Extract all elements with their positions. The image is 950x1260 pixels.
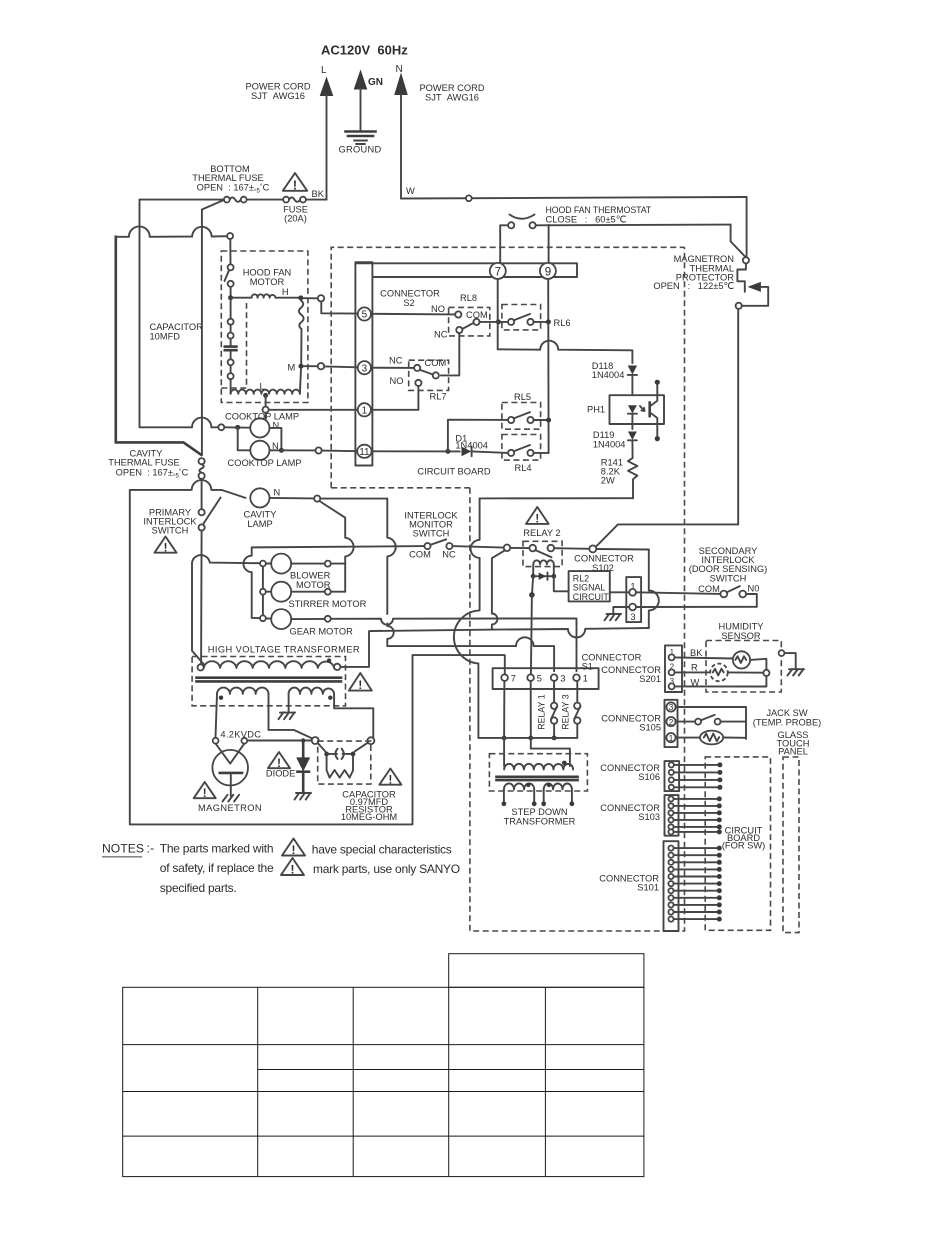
connector S2 bar	[355, 262, 372, 465]
winding H	[231, 297, 252, 299]
node 9 circled	[540, 263, 556, 279]
wire bus branch to transformer	[531, 738, 570, 766]
switch interlock monitor	[424, 543, 430, 549]
circuit board dashed box 2	[470, 247, 685, 931]
wire RL2 to S102 pin1	[610, 591, 629, 593]
magnetron thermal protector switch	[746, 197, 748, 257]
node 7 circled	[490, 263, 506, 279]
svg-text:COM: COM	[425, 358, 447, 368]
svg-text:OPEN : 167±₀5°C: OPEN : 167±₀5°C	[197, 182, 270, 194]
wire pin11 right	[372, 450, 460, 452]
svg-text:COOKTOP LAMP: COOKTOP LAMP	[228, 458, 302, 468]
thermistor TH2 dashed	[710, 664, 728, 682]
svg-text:L: L	[260, 382, 265, 392]
diode HV	[301, 738, 305, 742]
S105 pin3	[666, 702, 675, 711]
wire lamp2 left feed	[238, 427, 251, 450]
capacitor plates	[225, 345, 237, 348]
wire lamp2 to pin11	[270, 449, 316, 451]
transformer T2 secondary A	[504, 783, 534, 789]
svg-text:MOTOR: MOTOR	[250, 277, 285, 287]
svg-text:TRANSFORMER: TRANSFORMER	[504, 816, 576, 826]
fuse F1 20A symbol	[283, 197, 289, 203]
junction dot D1	[445, 449, 450, 454]
wire RL8 NC down to RL7 com	[441, 333, 460, 375]
svg-text:N: N	[274, 488, 281, 498]
svg-text:GEAR MOTOR: GEAR MOTOR	[290, 627, 354, 637]
svg-text:STIRRER MOTOR: STIRRER MOTOR	[289, 599, 367, 609]
svg-text:NC: NC	[434, 330, 448, 340]
svg-text:GROUND: GROUND	[338, 145, 381, 155]
svg-text:DIODE: DIODE	[266, 768, 295, 778]
blade capacitor left	[318, 743, 326, 751]
thermistor TH1	[733, 651, 750, 668]
wire S102 pin1 to COM	[636, 592, 721, 594]
svg-text:SENSOR: SENSOR	[721, 631, 761, 641]
switch secondary interlock	[720, 591, 727, 598]
wire lamp node horizontal to V387	[320, 498, 387, 500]
wire coil left down	[532, 576, 533, 595]
wire thermostat right lead	[536, 224, 731, 227]
power terminal GN arrow	[354, 70, 368, 90]
switch hood fan	[229, 239, 231, 265]
wire V492 diagonal from rail	[492, 550, 505, 629]
svg-text:The parts marked with: The parts marked with	[160, 842, 273, 856]
junction dot cap left	[324, 752, 329, 757]
node hood fan M terminal	[304, 365, 318, 367]
svg-text:S103: S103	[638, 812, 660, 822]
wire HV left leg to ground	[288, 694, 290, 712]
connector S106 box	[665, 761, 680, 791]
svg-text:2W: 2W	[601, 476, 615, 486]
blade capacitor right	[355, 743, 368, 752]
svg-text:!: !	[358, 680, 362, 692]
jack thermistor	[676, 737, 700, 739]
wire node B to ground	[784, 653, 795, 669]
svg-text:PANEL: PANEL	[778, 747, 808, 757]
svg-text:RELAY 1: RELAY 1	[537, 694, 547, 729]
pin 11	[357, 445, 371, 458]
wire Hb horizontal	[340, 628, 648, 667]
svg-text:JACK SW: JACK SW	[766, 708, 808, 718]
wire S102 pin3 ground	[613, 607, 629, 614]
warning triangle (notes 2)	[281, 858, 304, 877]
wire pin5 down to bus	[530, 681, 532, 738]
svg-text:!: !	[535, 514, 539, 526]
wire N down	[400, 94, 402, 199]
wire pin3 to RL7	[371, 367, 414, 369]
svg-text:S106: S106	[638, 772, 660, 782]
node A circle	[763, 670, 769, 676]
wire pin7 feed	[413, 655, 505, 674]
svg-text:9: 9	[545, 266, 551, 278]
svg-text:NC: NC	[389, 356, 403, 366]
wire TH1 right	[750, 659, 766, 670]
wire L down	[326, 95, 328, 200]
node L tap circle	[265, 395, 267, 406]
svg-text:POWER CORD: POWER CORD	[245, 82, 310, 92]
S105 pin2	[666, 717, 675, 726]
wire rail NC to relay2	[453, 546, 504, 548]
wire GN down	[360, 88, 362, 131]
svg-text:SJT AWG16: SJT AWG16	[425, 93, 479, 103]
motor gear	[260, 615, 266, 621]
junction dot H-right	[298, 295, 303, 300]
svg-text:2: 2	[669, 717, 674, 727]
motor blower	[260, 561, 266, 567]
switch primary interlock	[199, 509, 205, 515]
junction dot RL6-9	[546, 319, 551, 324]
svg-text:HOOD FAN THERMOSTAT: HOOD FAN THERMOSTAT	[546, 205, 652, 215]
junction dot M	[299, 364, 304, 369]
circuit board for SW dashed box	[705, 757, 770, 930]
relay 2 dashed box	[523, 541, 562, 566]
winding L	[231, 390, 300, 394]
svg-text:(FOR SW): (FOR SW)	[722, 841, 765, 851]
svg-text:N: N	[273, 421, 280, 431]
transformer T1 filament winding	[217, 688, 268, 694]
svg-text:HIGH VOLTAGE TRANSFORMER: HIGH VOLTAGE TRANSFORMER	[208, 644, 360, 654]
relay RL8 box	[449, 307, 490, 336]
ground symbol	[346, 130, 376, 133]
svg-text:RL6: RL6	[554, 318, 571, 328]
svg-text:5: 5	[537, 674, 542, 684]
wire interlock monitor rail	[243, 547, 259, 618]
warning triangle (notes 1)	[282, 839, 305, 858]
connector S105 box	[665, 700, 678, 747]
wire tee down to node 9	[548, 225, 550, 263]
svg-text:M: M	[288, 363, 296, 373]
S106 pins	[669, 762, 674, 790]
svg-text:OPEN : 122±5℃: OPEN : 122±5℃	[653, 281, 734, 291]
wire 7 to D118 branch	[498, 341, 633, 363]
wire hop over vertical (cooktop feed)	[192, 418, 211, 428]
motor stirrer	[260, 589, 266, 595]
svg-text:HOOD FAN: HOOD FAN	[243, 268, 292, 278]
switch relay 3	[576, 681, 578, 703]
glass touch panel dashed box	[783, 757, 799, 933]
ground (magnetron)	[223, 795, 240, 802]
svg-text:CAVITY: CAVITY	[244, 510, 277, 520]
lamp cavity	[250, 488, 269, 507]
svg-text:MOTOR: MOTOR	[296, 580, 331, 590]
wire H to pin5	[321, 302, 358, 314]
wire 11 branch up to RL5	[448, 420, 508, 452]
wire capacitor left plate	[116, 237, 202, 455]
svg-text:PH1: PH1	[587, 405, 605, 415]
lamp cooktop 1	[250, 418, 269, 437]
lamp cooktop 2	[250, 441, 269, 460]
svg-text:COM: COM	[698, 584, 720, 594]
svg-text:CIRCUIT BOARD: CIRCUIT BOARD	[417, 467, 490, 477]
thermal fuse cavity	[199, 458, 205, 464]
motor bus	[262, 566, 264, 615]
svg-text:(TEMP. PROBE): (TEMP. PROBE)	[753, 717, 822, 727]
wire lamp1 right loop	[270, 428, 282, 450]
svg-text:STEP DOWN: STEP DOWN	[511, 807, 567, 817]
connector S101 box	[664, 841, 679, 931]
svg-text:11: 11	[359, 447, 370, 458]
svg-text::-: :-	[147, 842, 155, 856]
svg-text:SWITCH: SWITCH	[152, 526, 189, 536]
pin 5	[358, 307, 371, 320]
svg-text:7: 7	[495, 266, 501, 278]
wire HV right leg	[334, 694, 373, 737]
warning triangle (fuse)	[283, 173, 307, 192]
svg-text:POWER CORD: POWER CORD	[419, 83, 484, 93]
svg-text:5: 5	[362, 310, 368, 321]
svg-text:!: !	[388, 774, 392, 786]
warning triangle (diode)	[268, 752, 290, 770]
wire pin7 line to transformer	[503, 738, 505, 766]
relay RL6 contacts	[508, 319, 514, 325]
S1 pin7	[501, 674, 508, 681]
capacitor HV plates	[335, 749, 343, 759]
wire blower feed loop	[192, 555, 260, 664]
svg-text:of safety, if replace the: of safety, if replace the	[160, 861, 274, 875]
svg-text:!: !	[291, 863, 295, 877]
warning triangle (capacitor)	[379, 769, 401, 787]
svg-text:CAPACITOR: CAPACITOR	[150, 322, 204, 332]
node cooktop feed circle	[218, 424, 224, 430]
junction dot bus-7	[502, 736, 507, 741]
enclosure wire box	[130, 490, 413, 825]
relay RL7 contacts	[414, 365, 420, 371]
svg-text:COM: COM	[409, 550, 431, 560]
relay RL4 contacts	[508, 450, 514, 456]
wire RL8 com to node7	[480, 321, 498, 323]
svg-text:BK: BK	[312, 189, 325, 199]
wire N horizontal	[401, 197, 747, 199]
svg-text:S201: S201	[639, 674, 661, 684]
wire pin7 down to bus	[503, 681, 505, 738]
svg-text:COOKTOP LAMP: COOKTOP LAMP	[225, 412, 299, 422]
svg-text:!: !	[292, 843, 296, 857]
svg-text:CONNECTOR: CONNECTOR	[380, 289, 440, 299]
svg-text:RL8: RL8	[460, 293, 477, 303]
wire node9 down	[547, 279, 549, 453]
warning triangle (magnetron)	[194, 782, 216, 800]
junction dot cap right	[351, 752, 356, 757]
node hood fan H terminal	[303, 297, 317, 299]
svg-text:NOTES: NOTES	[102, 842, 144, 856]
svg-text:OPEN : 167±₀5°C: OPEN : 167±₀5°C	[116, 467, 189, 479]
svg-text:THERMAL FUSE: THERMAL FUSE	[108, 458, 179, 468]
svg-text:N: N	[396, 64, 403, 75]
wire common bus	[478, 737, 577, 739]
svg-text:specified parts.: specified parts.	[160, 881, 237, 895]
switch relay 1	[553, 681, 555, 703]
wire TH2 right to node A	[728, 671, 764, 673]
wire enclosure top with hop	[130, 480, 246, 498]
S1 pin1	[573, 674, 580, 681]
S1 pin3	[551, 674, 558, 681]
svg-text:S105: S105	[639, 723, 661, 733]
optocoupler PH1 box	[610, 395, 665, 424]
circuit board dashed box 1	[331, 247, 684, 487]
relay RL8 contacts	[455, 311, 461, 317]
relay RL5 box	[502, 403, 541, 430]
svg-text:LAMP: LAMP	[247, 519, 272, 529]
wire gear motor long with hop	[331, 618, 577, 671]
node B circle on box edge	[779, 650, 785, 656]
jack switch wires	[676, 707, 746, 739]
wire L tap to pin1	[269, 409, 359, 411]
PH1 transistor	[648, 403, 651, 417]
svg-text:N: N	[272, 441, 279, 451]
relay2 contacts on rail	[504, 545, 511, 552]
capacitor chain center	[228, 319, 234, 325]
svg-text:R: R	[691, 662, 698, 672]
wire V345 down with rail hop	[345, 518, 353, 592]
svg-text:1: 1	[362, 406, 368, 417]
svg-text:NC: NC	[442, 550, 456, 560]
bottom thermal fuse symbol	[224, 197, 230, 203]
junction dot RL5-9	[546, 418, 551, 423]
transformer T1 core	[197, 676, 342, 679]
svg-text:1: 1	[669, 733, 674, 743]
ground (RL2)	[605, 614, 622, 621]
svg-text:SJT AWG16: SJT AWG16	[251, 91, 305, 101]
wire BK top rail	[140, 199, 225, 201]
S1 pin5	[527, 674, 534, 681]
wire S102 pin3 right	[636, 606, 757, 608]
S105 pin1	[666, 733, 675, 742]
S101 pins and wires	[668, 846, 673, 922]
svg-text:1: 1	[583, 674, 588, 684]
svg-text:AC120V 60Hz: AC120V 60Hz	[321, 43, 408, 58]
step down transformer dashed box	[489, 754, 587, 791]
wire S201 pin1 to thermistor	[675, 657, 734, 658]
wire tap diagonal to cavity branch	[202, 200, 224, 455]
resistor 10MEG	[327, 756, 353, 777]
wire filament line	[248, 740, 312, 742]
wire coil left to S1 pin5	[531, 595, 532, 675]
svg-text:CLOSE : 60±5℃: CLOSE : 60±5℃	[546, 215, 627, 225]
svg-text:SWITCH: SWITCH	[710, 573, 747, 583]
svg-text:L: L	[321, 65, 327, 76]
wire node A down to W return	[675, 676, 767, 687]
connector S1 box	[493, 668, 599, 689]
bus bar with nodes 7 and 9	[356, 263, 577, 277]
svg-text:MAGNETRON: MAGNETRON	[198, 803, 262, 813]
junction dot H-left	[228, 295, 233, 300]
svg-text:CIRCUIT: CIRCUIT	[573, 592, 610, 602]
warning triangle (primary interlock)	[155, 537, 177, 555]
transformer T1 primary	[198, 664, 204, 670]
hood fan motor dashed box	[221, 251, 308, 403]
ground (diode)	[295, 793, 312, 800]
svg-text:RELAY 3: RELAY 3	[561, 694, 571, 729]
transformer T2 secondary B	[544, 784, 572, 790]
transformer T2 core	[497, 775, 578, 778]
wire NO return	[746, 594, 757, 607]
svg-text:RL5: RL5	[514, 392, 531, 402]
power terminal L arrow	[320, 77, 334, 97]
svg-text:(20A): (20A)	[284, 214, 307, 224]
S103 pins	[668, 796, 673, 834]
wire lamp node diagonal to V345	[319, 501, 345, 518]
junction dot bus-5	[528, 736, 533, 741]
svg-text:7: 7	[511, 674, 516, 684]
junction dot cooktop	[235, 425, 240, 430]
connector S201 box	[665, 645, 682, 692]
svg-text:GN: GN	[368, 77, 383, 88]
magnetron terminals	[213, 738, 219, 744]
svg-text:1N4004: 1N4004	[593, 439, 626, 449]
svg-text:RL4: RL4	[515, 463, 532, 473]
wire coil right to RL2	[554, 576, 569, 591]
node capacitor left	[312, 737, 319, 744]
wire V387 down with rail hop	[387, 499, 395, 614]
svg-text:1N4004: 1N4004	[455, 440, 488, 450]
svg-text:10MFD: 10MFD	[150, 332, 181, 342]
svg-text:BLOWER: BLOWER	[290, 571, 331, 581]
junction dot lamp2 right	[279, 448, 284, 453]
wire M to pin3	[324, 365, 358, 368]
svg-text:W: W	[406, 186, 415, 196]
wire hood-fan feed with hops	[116, 226, 227, 236]
relay RL6 box	[502, 305, 541, 330]
wire RL7 NO to pin1	[371, 386, 418, 410]
capacitor/resistor dashed box	[318, 741, 371, 784]
svg-text:RELAY 2: RELAY 2	[523, 528, 560, 538]
relay2 clamp diode	[531, 574, 536, 579]
relay2 coil	[533, 560, 554, 564]
diode D1	[462, 447, 472, 457]
hood fan thermostat switch	[510, 215, 535, 219]
transformer T1 HV winding	[289, 688, 334, 694]
wire S201 pin2 to TH2	[675, 671, 710, 673]
svg-text:BK: BK	[690, 648, 703, 658]
node W junction circle	[466, 195, 472, 201]
wire fuse-left corner down	[140, 200, 193, 428]
svg-text:!: !	[164, 542, 168, 554]
svg-text:S1: S1	[582, 661, 593, 671]
svg-text:3: 3	[669, 702, 674, 712]
svg-text:NO: NO	[390, 376, 404, 386]
humidity sensor dashed box	[706, 641, 781, 693]
connector S102 box	[626, 577, 641, 622]
svg-text:3: 3	[560, 674, 565, 684]
svg-text:!: !	[293, 178, 297, 192]
wire node7 down	[497, 279, 499, 349]
wire R141 return	[480, 497, 633, 499]
PH1 led	[628, 405, 637, 413]
warning triangle (HV transformer)	[349, 673, 372, 692]
svg-text:3: 3	[630, 612, 635, 622]
svg-text:mark parts, use only SANYO: mark parts, use only SANYO	[313, 862, 460, 876]
junction dot RL8com-7	[496, 319, 501, 324]
HV transformer dashed box	[192, 657, 345, 706]
magnetron	[212, 750, 248, 786]
svg-text:H: H	[282, 287, 289, 297]
node capacitor right	[367, 737, 374, 744]
relay RL4 box	[502, 435, 541, 461]
winding M vertical	[299, 300, 304, 329]
svg-text:RL7: RL7	[430, 392, 447, 402]
table	[123, 954, 644, 1177]
box RL2 signal circuit	[569, 571, 610, 601]
warning triangle (relay2)	[526, 507, 549, 526]
svg-text:1N4004: 1N4004	[592, 370, 625, 380]
ground (humidity)	[788, 669, 805, 676]
junction dot bus-r1	[552, 736, 557, 741]
pin 3	[358, 361, 371, 374]
wire V1 from R141 return	[454, 498, 480, 738]
wire pin5 to RL8	[371, 313, 455, 316]
ground (HV winding)	[279, 712, 296, 719]
